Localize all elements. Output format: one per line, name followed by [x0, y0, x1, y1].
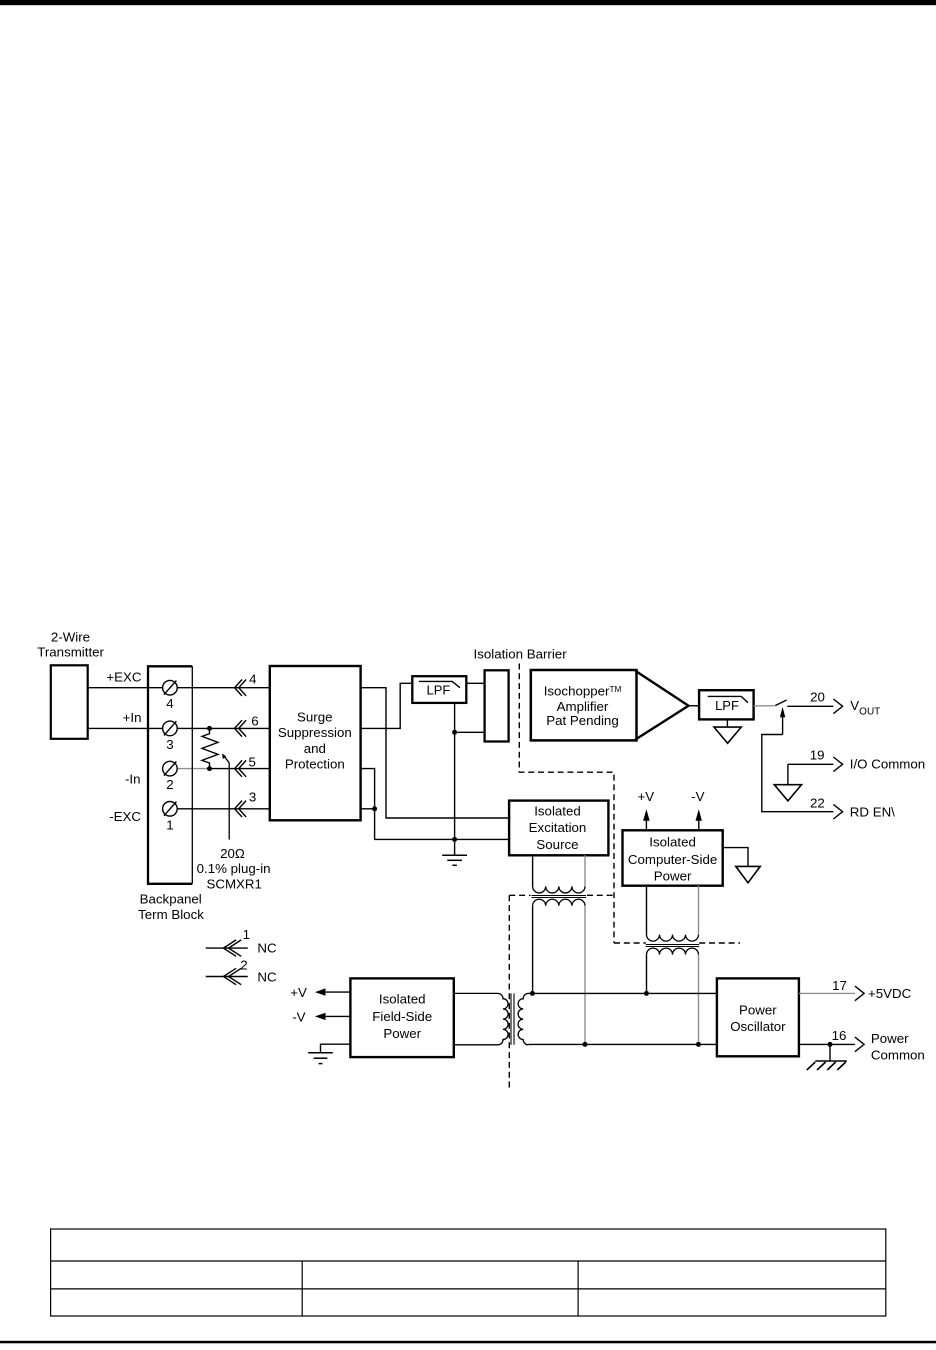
- svg-text:Excitation: Excitation: [529, 820, 587, 835]
- terminal 1: [163, 802, 178, 817]
- isolated computer-side power box: [623, 830, 723, 885]
- wire LPF2 to switch gray: [754, 705, 775, 707]
- wire secondary bus top: [528, 992, 717, 994]
- +5VDC arrow: [855, 986, 864, 1001]
- svg-text:Power: Power: [383, 1026, 421, 1041]
- svg-text:2-Wire: 2-Wire: [51, 629, 90, 644]
- surge suppression box: [270, 666, 361, 820]
- svg-text:4: 4: [166, 696, 173, 711]
- resistor R1 20 ohm: [202, 728, 218, 768]
- wire +5VDC gray: [799, 992, 855, 994]
- ground field side signal: [442, 855, 467, 865]
- power oscillator label: [730, 1002, 786, 1034]
- isolated computer-side power label: [628, 834, 717, 883]
- wire -In row gray segment: [177, 768, 209, 770]
- node +In junction: [207, 726, 212, 731]
- transformer T3 core: [511, 993, 514, 1044]
- LPF2 common stub: [726, 719, 728, 727]
- label IO common: [850, 757, 925, 772]
- svg-text:Power: Power: [739, 1002, 777, 1017]
- svg-text:LPF: LPF: [426, 683, 450, 698]
- pin 5 number: [248, 754, 255, 769]
- pin 1 NC: [206, 940, 248, 956]
- svg-text:1: 1: [243, 927, 250, 942]
- transformer T2 core: [646, 945, 699, 947]
- svg-text:16: 16: [832, 1028, 847, 1043]
- field +V arrow: [315, 988, 351, 995]
- wire IO common: [788, 764, 834, 784]
- svg-text:+EXC: +EXC: [106, 669, 142, 684]
- label power common: [871, 1031, 925, 1062]
- transformer T3 field winding: [454, 993, 508, 1044]
- isolated excitation source box: [509, 801, 608, 856]
- svg-text:2: 2: [166, 777, 173, 792]
- terminal 3: [163, 721, 178, 736]
- computer power common triangle: [736, 866, 760, 882]
- svg-text:Transmitter: Transmitter: [37, 645, 104, 660]
- wire junction to coupling box: [455, 731, 485, 733]
- svg-text:6: 6: [251, 714, 258, 729]
- isolation barrier dashed line lower: [509, 895, 614, 1091]
- transformer T2 secondary winding: [647, 948, 699, 1044]
- svg-text:+5VDC: +5VDC: [868, 986, 912, 1001]
- label -EXC: [109, 809, 141, 824]
- terminal 3 number: [166, 737, 173, 752]
- wire amplifier to LPF2: [689, 705, 700, 707]
- field ground wire: [321, 1044, 351, 1053]
- svg-text:20Ω: 20Ω: [220, 846, 245, 861]
- isolated field-side power box: [350, 978, 453, 1057]
- svg-text:Isolated: Isolated: [379, 992, 426, 1007]
- svg-text:Common: Common: [871, 1047, 925, 1062]
- node T2 gray lead to bus bottom: [696, 1042, 701, 1047]
- wire surge out5 to excitation source: [361, 769, 510, 840]
- label computer +V: [637, 789, 654, 804]
- svg-text:20: 20: [810, 690, 825, 705]
- wire computer power common hook: [723, 848, 748, 867]
- label RD EN: [850, 805, 895, 820]
- power oscillator box: [717, 978, 799, 1056]
- pin 6 chevron: [235, 720, 247, 736]
- terminal 2 number: [166, 777, 173, 792]
- label +In: [123, 710, 142, 725]
- transformer T1 primary winding: [533, 855, 585, 893]
- svg-text:Field-Side: Field-Side: [372, 1009, 432, 1024]
- label SCMXR1: [206, 877, 261, 892]
- svg-text:and: and: [304, 741, 326, 756]
- node T2 secondary to bus top: [644, 991, 649, 996]
- backpanel term block box: [148, 666, 192, 884]
- label NC 2: [257, 969, 277, 984]
- wire +In row: [88, 727, 270, 729]
- transformer T3 secondary winding: [518, 993, 528, 1044]
- isochopper amplifier label: [544, 684, 622, 728]
- LPF1 label: [426, 683, 450, 698]
- isolation barrier dashed line upper: [519, 664, 740, 944]
- label +5VDC: [868, 986, 912, 1001]
- computer +V arrow: [643, 809, 650, 830]
- isolated field-side power label: [372, 992, 432, 1041]
- IO common arrow: [833, 757, 842, 772]
- LPF2 common triangle: [714, 727, 741, 743]
- label field +V: [290, 985, 307, 1000]
- field -V arrow: [315, 1013, 351, 1020]
- pin 3 chevron: [235, 801, 247, 817]
- pin 1 number: [243, 927, 250, 942]
- computer -V arrow: [696, 809, 702, 830]
- svg-text:Power: Power: [871, 1031, 909, 1046]
- svg-text:VOUT: VOUT: [850, 698, 880, 717]
- low-pass filter LPF1 box: [412, 676, 466, 703]
- wire surge out3 stub: [361, 808, 375, 810]
- svg-text:SCMXR1: SCMXR1: [206, 877, 261, 892]
- label computer -V: [691, 789, 704, 804]
- pin 2 number: [240, 958, 247, 973]
- svg-text:Pat Pending: Pat Pending: [546, 713, 618, 728]
- svg-text:Protection: Protection: [285, 757, 345, 772]
- isolation coupling box: [485, 670, 509, 741]
- svg-text:Amplifier: Amplifier: [557, 699, 609, 714]
- terminal 4: [163, 680, 178, 695]
- label -In: [125, 771, 141, 786]
- pin 17 number: [832, 978, 847, 993]
- pin 19 number: [810, 748, 825, 763]
- transformer T2 primary winding: [647, 886, 699, 941]
- isochopper amplifier U1: [531, 670, 689, 740]
- wire +EXC row: [88, 687, 270, 689]
- resistor wiper arrow: [222, 754, 229, 840]
- switch control arrow: [780, 707, 785, 735]
- wire LPF1 ground drop: [454, 703, 456, 855]
- terminal 2: [163, 761, 178, 776]
- pin 3 number: [249, 790, 256, 805]
- wire surge out6 to LPF1: [361, 683, 413, 728]
- label +EXC: [106, 669, 142, 684]
- revision table: [51, 1229, 886, 1316]
- switch S1 blade: [775, 700, 786, 706]
- svg-text:2: 2: [240, 958, 247, 973]
- label VOUT: [850, 698, 880, 717]
- VOUT arrow: [833, 699, 842, 714]
- svg-text:Surge: Surge: [297, 710, 332, 725]
- node -In junction: [207, 766, 212, 771]
- svg-text:Isolated: Isolated: [534, 803, 581, 818]
- svg-text:Isolation Barrier: Isolation Barrier: [474, 647, 568, 662]
- svg-text:+V: +V: [290, 985, 307, 1000]
- svg-text:-In: -In: [125, 771, 141, 786]
- svg-text:-EXC: -EXC: [109, 809, 141, 824]
- LPF2 label: [715, 698, 739, 713]
- svg-text:1: 1: [166, 817, 173, 832]
- transformer T1 core: [532, 896, 587, 898]
- pin 2 NC: [206, 968, 248, 984]
- wire switch to VOUT: [787, 705, 833, 707]
- transmitter box: [51, 665, 88, 739]
- wire -EXC row: [177, 808, 270, 810]
- label field -V: [292, 1009, 305, 1024]
- svg-text:17: 17: [832, 978, 847, 993]
- svg-text:NC: NC: [257, 941, 277, 956]
- svg-text:Term Block: Term Block: [138, 907, 204, 922]
- svg-text:19: 19: [810, 748, 825, 763]
- backpanel term block label: [138, 892, 204, 922]
- svg-text:4: 4: [249, 672, 256, 687]
- node excitation return junction: [452, 837, 457, 842]
- node power common junction: [828, 1042, 833, 1047]
- pin 16 number: [832, 1028, 847, 1043]
- pin 4 chevron: [235, 680, 247, 696]
- isolation barrier label: [474, 647, 568, 662]
- svg-text:+V: +V: [637, 789, 654, 804]
- svg-text:NC: NC: [257, 969, 277, 984]
- chassis ground: [807, 1044, 847, 1070]
- terminal 4 number: [166, 696, 173, 711]
- isolated excitation source label: [529, 803, 587, 851]
- svg-text:3: 3: [166, 737, 173, 752]
- pin 5 chevron: [235, 760, 247, 776]
- svg-text:+In: +In: [123, 710, 142, 725]
- svg-text:Power: Power: [654, 869, 692, 884]
- wire secondary bus bottom: [528, 1043, 717, 1045]
- pin 20 number: [810, 690, 825, 705]
- RD EN arrow: [833, 804, 842, 819]
- IO common triangle: [774, 785, 801, 801]
- svg-text:Source: Source: [536, 837, 578, 852]
- ground field-side power: [308, 1053, 333, 1064]
- svg-text:Backpanel: Backpanel: [140, 892, 202, 907]
- pin 22 number: [810, 795, 825, 810]
- svg-text:LPF: LPF: [715, 698, 739, 713]
- power common arrow: [855, 1037, 864, 1052]
- wire RD EN path: [762, 735, 834, 812]
- low-pass filter LPF2 box: [699, 690, 754, 719]
- wire surge out4 to excitation source: [361, 688, 510, 818]
- svg-text:Isolated: Isolated: [649, 834, 696, 849]
- wire -In row: [210, 768, 270, 770]
- label 0.1% plug-in: [197, 861, 271, 876]
- label 20 ohm: [220, 846, 245, 861]
- wire power common: [799, 1043, 855, 1045]
- svg-text:Computer-Side: Computer-Side: [628, 852, 717, 867]
- svg-text:5: 5: [248, 754, 255, 769]
- label NC 1: [257, 941, 277, 956]
- surge suppression label: [278, 710, 352, 772]
- svg-text:3: 3: [249, 790, 256, 805]
- svg-text:0.1% plug-in: 0.1% plug-in: [197, 861, 271, 876]
- pin 6 number: [251, 714, 258, 729]
- svg-text:I/O Common: I/O Common: [850, 757, 925, 772]
- terminal 1 number: [166, 817, 173, 832]
- svg-text:Oscillator: Oscillator: [730, 1019, 786, 1034]
- svg-text:RD EN\: RD EN\: [850, 805, 895, 820]
- pin 4 number: [249, 672, 256, 687]
- svg-text:22: 22: [810, 795, 825, 810]
- wire LPF1 to coupling box: [466, 682, 484, 684]
- transformer T1 secondary winding: [533, 899, 585, 1044]
- node LPF1 drop junction: [452, 730, 457, 735]
- node T1 gray lead to bus bottom: [583, 1042, 588, 1047]
- node -EXC junction: [372, 806, 377, 811]
- node T1 secondary to bus top: [530, 991, 535, 996]
- svg-text:Suppression: Suppression: [278, 725, 352, 740]
- svg-text:-V: -V: [691, 789, 704, 804]
- svg-text:-V: -V: [292, 1009, 305, 1024]
- 2-wire transmitter label: [37, 629, 104, 659]
